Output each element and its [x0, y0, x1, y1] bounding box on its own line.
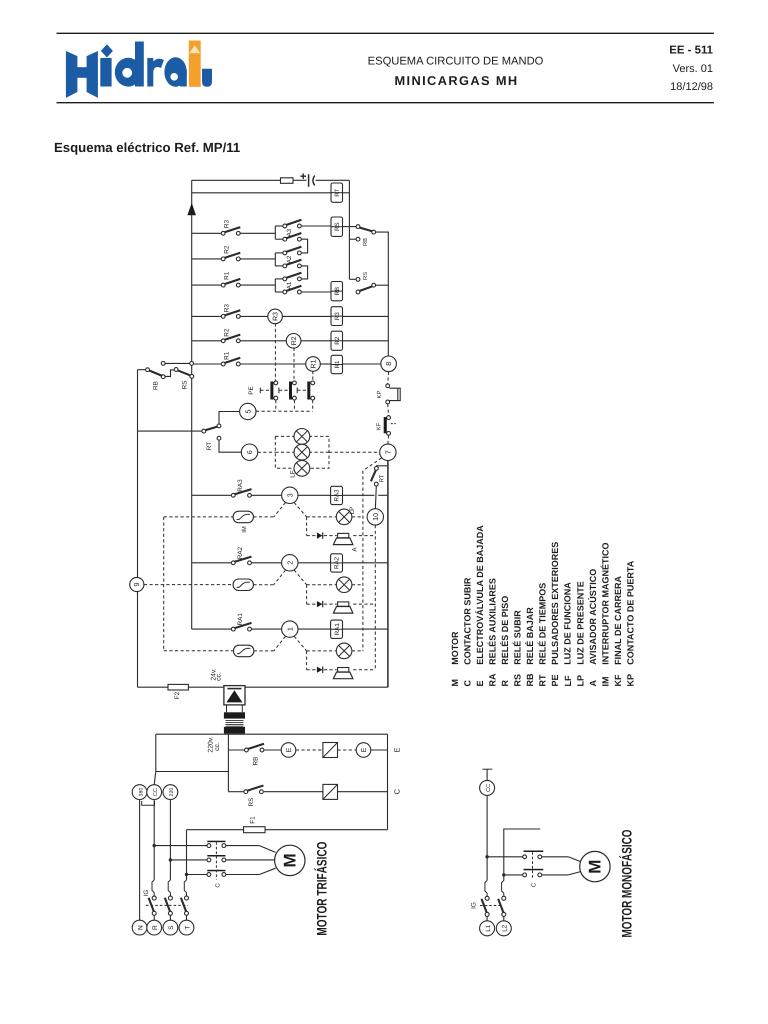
svg-text:RB: RB [153, 381, 160, 390]
wire motor row B [170, 859, 207, 861]
svg-text:L2: L2 [502, 924, 509, 931]
switch R2 lower [221, 339, 225, 343]
dashed bus from node 7 [362, 471, 364, 651]
changeover contact RB top right [356, 225, 360, 229]
wire CC drop [153, 800, 155, 881]
svg-text:A2: A2 [286, 255, 293, 263]
dashed drop row 2 [306, 585, 308, 604]
svg-text:RS: RS [513, 674, 523, 687]
wire floor row 2 [192, 562, 232, 564]
dashed wire IM3 to left [164, 516, 233, 518]
dashed bus from node 10 [374, 525, 376, 670]
svg-text:F2: F2 [174, 691, 181, 699]
wire A3 to RS coil [301, 225, 331, 227]
svg-text:3: 3 [285, 493, 294, 497]
wire A1 lower to RB coil [301, 291, 331, 293]
svg-text:RA2: RA2 [334, 556, 341, 569]
dashed wire buzzer row 2 [307, 603, 316, 605]
svg-text:RELÉ SUBIR: RELÉ SUBIR [513, 610, 523, 665]
limit switch KF [387, 416, 391, 420]
svg-text:C: C [214, 883, 221, 888]
pushbutton PE3 [307, 382, 310, 400]
node 7 [380, 444, 396, 460]
lamp LP floor 3 [336, 509, 352, 525]
svg-text:RA1: RA1 [334, 623, 341, 636]
Hidral logo [66, 41, 212, 98]
node 2 [282, 555, 298, 571]
coil box R1 [331, 355, 343, 373]
rectifier box [224, 686, 245, 705]
svg-text:CC: CC [153, 788, 159, 796]
supply top wire with fuse and battery [192, 179, 281, 181]
svg-text:Vers. 01: Vers. 01 [673, 63, 713, 75]
dashed to connector [296, 749, 323, 751]
relay R3 [268, 309, 283, 324]
svg-text:ELECTROVÁLVULA DE BAJADA: ELECTROVÁLVULA DE BAJADA [475, 525, 485, 665]
svg-text:FINAL DE CARRERA: FINAL DE CARRERA [613, 575, 623, 664]
switch RA2 [231, 561, 235, 565]
polarity arrow on bus [187, 203, 196, 216]
dashed to coil E2 [338, 749, 357, 751]
wire motor row C [187, 874, 208, 876]
svg-text:cc.: cc. [214, 742, 221, 751]
svg-text:KF: KF [613, 674, 623, 686]
coil box RA2 [331, 554, 343, 572]
terminal S [163, 920, 178, 935]
svg-text:RB: RB [253, 757, 260, 766]
wire R3 contact row [192, 232, 222, 234]
svg-text:R3: R3 [223, 304, 230, 313]
wire mono row 1 [487, 856, 523, 858]
svg-text:CONTACTOR SUBIR: CONTACTOR SUBIR [462, 577, 472, 665]
wire N [139, 800, 141, 921]
svg-text:RT: RT [206, 442, 213, 450]
svg-text:RS: RS [334, 222, 341, 231]
svg-text:RB: RB [525, 673, 535, 686]
svg-text:R1: R1 [334, 360, 341, 368]
relay coil RS [343, 226, 357, 228]
fuse F2 [168, 684, 188, 690]
switch RT right [375, 467, 379, 471]
pushbutton PE2 [289, 382, 292, 400]
svg-text:S: S [168, 925, 175, 930]
wire CC mono drop [486, 795, 488, 880]
wire RS contact to bus [376, 284, 389, 286]
svg-text:EE - 511: EE - 511 [669, 45, 713, 57]
svg-text:M: M [586, 860, 605, 874]
svg-text:A: A [352, 547, 359, 552]
header bottom rule [57, 102, 714, 104]
svg-text:220: 220 [169, 788, 175, 797]
svg-text:RT: RT [379, 474, 386, 482]
magnetic switch IM floor 2 [233, 579, 253, 591]
wire floor row 1 [192, 628, 232, 630]
dashed wire buzzer row 3 [307, 535, 316, 537]
node 9 [130, 577, 144, 591]
battery plus label [300, 175, 306, 177]
contactor C mono actuator [532, 852, 534, 880]
coil box R3 [331, 307, 343, 326]
svg-text:F1: F1 [249, 816, 256, 824]
dashed wire KF to node 7 [387, 435, 390, 444]
motor M trifasico [275, 845, 305, 875]
svg-text:RELÉS AUXILIARES: RELÉS AUXILIARES [487, 578, 497, 665]
svg-text:RS: RS [248, 798, 255, 807]
svg-text:RA3: RA3 [334, 489, 341, 502]
contactor C mono poles [523, 855, 527, 859]
wire 220v left drop [155, 734, 157, 771]
lamp LF2 [294, 444, 310, 460]
svg-text:RS: RS [181, 381, 188, 390]
svg-text:LUZ DE PRESENTE: LUZ DE PRESENTE [575, 581, 585, 665]
svg-text:R2: R2 [223, 328, 230, 337]
svg-text:R1: R1 [223, 271, 230, 280]
svg-text:R3: R3 [223, 219, 230, 228]
wire coil row E [228, 749, 244, 751]
svg-text:RA1: RA1 [237, 613, 244, 626]
coil box R2 [331, 331, 343, 350]
switch RS 220 [244, 790, 248, 794]
svg-text:LUZ DE FUNCIONA: LUZ DE FUNCIONA [563, 582, 573, 665]
svg-text:R3: R3 [334, 312, 341, 320]
dashed V from node 2 [274, 570, 286, 585]
svg-text:R: R [500, 680, 510, 687]
wire fuse F1 row [187, 829, 244, 831]
svg-text:PULSADORES EXTERIORES: PULSADORES EXTERIORES [550, 542, 560, 665]
svg-text:E: E [393, 747, 402, 752]
dashed wire pushbutton common [256, 410, 313, 412]
wire F1 drop [186, 830, 188, 880]
wire 220 drop [169, 800, 171, 881]
terminal 220 [163, 785, 178, 800]
svg-text:LP: LP [575, 675, 585, 687]
connector box 1 [323, 743, 338, 758]
svg-text:RB: RB [363, 238, 369, 246]
wire A3 lower to A2 upper [301, 239, 307, 253]
terminal CC mono [480, 780, 495, 795]
wire 220v right drop [387, 734, 389, 830]
dashed left riser [163, 517, 165, 651]
svg-text:L1: L1 [485, 924, 492, 931]
dashed wire lamp row 1 [254, 650, 274, 652]
diode floor 2 [317, 601, 323, 607]
dashed branch from node 7 [363, 458, 382, 471]
terminal 380 [132, 785, 147, 800]
node 6 [241, 444, 257, 460]
dashed wire buzzer row 1 [307, 669, 316, 671]
wire coil row C [228, 791, 244, 793]
terminal CC [147, 785, 162, 800]
dashed wire lampbox to node 7 [329, 451, 380, 453]
svg-text:18/12/98: 18/12/98 [670, 81, 713, 93]
svg-text:KP: KP [376, 391, 383, 399]
svg-text:MOTOR: MOTOR [450, 631, 460, 665]
svg-text:E: E [475, 680, 485, 686]
dashed drop row 1 [306, 651, 308, 670]
dashed wire lamp row 3 [253, 516, 273, 518]
wire R2 contact row [192, 258, 222, 260]
legend [450, 525, 636, 687]
coil box RA3 [331, 486, 343, 504]
svg-text:R: R [152, 925, 159, 930]
svg-text:ESQUEMA CIRCUITO DE MANDO: ESQUEMA CIRCUITO DE MANDO [368, 56, 544, 68]
svg-text:LF: LF [563, 675, 573, 686]
terminal N [132, 920, 147, 935]
lamp LP floor 2 [336, 577, 352, 593]
strap 380-CC [142, 801, 155, 805]
svg-text:KF: KF [376, 422, 383, 430]
terminal R [147, 920, 162, 935]
svg-text:E: E [286, 747, 293, 752]
svg-text:1: 1 [285, 627, 294, 631]
svg-text:R1: R1 [223, 351, 230, 360]
svg-text:A3: A3 [286, 228, 293, 236]
svg-text:PE: PE [248, 386, 255, 395]
dashed drop row 3 [306, 517, 308, 536]
stub to RT timer contact [376, 465, 388, 468]
wire CC mono stub [483, 768, 493, 770]
svg-text:RA2: RA2 [237, 546, 244, 559]
svg-text:Esquema eléctrico Ref. MP/11: Esquema eléctrico Ref. MP/11 [54, 140, 240, 155]
wire relay row R2 [192, 340, 222, 342]
svg-text:T: T [184, 926, 191, 930]
terminal T [179, 920, 194, 935]
switch RA3 [231, 493, 235, 497]
wire A2 lower to A1 upper [301, 266, 307, 279]
motor M monofasico [580, 851, 610, 881]
relay coil RB [331, 290, 343, 292]
wire R1 contact row [192, 284, 222, 286]
contact group A2 [274, 253, 276, 266]
relay R1 [306, 357, 321, 372]
svg-text:AVISADOR ACÚSTICO: AVISADOR ACÚSTICO [588, 569, 598, 665]
svg-text:MOTOR TRIFÁSICO: MOTOR TRIFÁSICO [314, 841, 330, 935]
relay R2 [286, 334, 301, 349]
svg-text:8: 8 [384, 362, 393, 366]
wire 220v mid drop [227, 734, 229, 792]
terminal L2 [496, 921, 511, 936]
dashed wire KP to KF [387, 404, 390, 416]
wire mono pole drops [503, 875, 505, 881]
svg-text:C: C [393, 788, 402, 794]
svg-text:CC: CC [486, 784, 492, 792]
wire motor row A [154, 845, 207, 847]
lamp group rails [275, 436, 329, 468]
terminal L1 [480, 921, 495, 936]
svg-text:10: 10 [371, 513, 380, 521]
door contact KP [386, 384, 390, 388]
battery plates [308, 174, 310, 187]
contactor C poles [207, 844, 211, 848]
coil box RA1 [331, 620, 343, 638]
wire to node 5 [219, 412, 240, 425]
dashed risers R relays to buttons [274, 323, 276, 381]
dashed V from node 3 [274, 503, 286, 517]
dashed wire node8 to KP [387, 372, 390, 384]
header top rule [57, 32, 714, 34]
svg-text:IG: IG [471, 902, 478, 909]
wire RT common [138, 430, 202, 432]
svg-text:RT: RT [538, 674, 548, 686]
bottom 24v wire [138, 686, 169, 688]
svg-text:C: C [462, 680, 472, 687]
magnetic switch IM floor 1 [234, 645, 254, 657]
fuse F1 [244, 827, 266, 833]
changeover switch RT left [202, 429, 206, 433]
svg-text:LF: LF [290, 470, 297, 478]
svg-text:RELÉ BAJAR: RELÉ BAJAR [525, 607, 535, 665]
switch RA1 [231, 627, 235, 631]
svg-text:RELÉS DE PISO: RELÉS DE PISO [500, 596, 510, 665]
svg-text:A: A [588, 680, 598, 687]
wire node 6 [219, 440, 241, 452]
switch R2 [221, 257, 225, 261]
contactor C actuator [215, 842, 217, 879]
changeover contact RS right [356, 290, 360, 294]
svg-text:IM: IM [600, 677, 610, 687]
dashed V from node 1 [274, 636, 286, 651]
svg-text:INTERRUPTOR MAGNÉTICO: INTERRUPTOR MAGNÉTICO [600, 542, 610, 664]
svg-text:7: 7 [384, 450, 393, 454]
lamp LP floor 1 [336, 643, 352, 659]
switch RB left [138, 369, 146, 371]
svg-text:R2: R2 [223, 245, 230, 254]
node 1 [282, 621, 298, 637]
svg-text:IG: IG [143, 890, 150, 897]
svg-text:PE: PE [550, 674, 560, 686]
wire mono row 2 [504, 874, 523, 876]
node 3 [282, 487, 298, 503]
wire RT to node 10 [374, 486, 377, 509]
svg-text:KP: KP [626, 674, 636, 687]
svg-text:380: 380 [138, 788, 144, 797]
svg-text:M: M [281, 853, 300, 867]
left bus wire [191, 180, 193, 629]
diode floor 1 [317, 667, 323, 673]
svg-text:C: C [530, 882, 537, 887]
svg-text:E: E [361, 747, 368, 752]
contact group A1 [274, 279, 276, 292]
connector box 2 [323, 784, 338, 799]
switch RB 220 [245, 748, 249, 752]
wire RB contact to bus 8 [376, 232, 389, 356]
dashed wire node6 to lamp box [258, 451, 276, 453]
node 10 [367, 509, 383, 525]
svg-text:R2: R2 [334, 336, 341, 344]
wire RT row [192, 192, 331, 194]
outer left bus [137, 370, 139, 578]
svg-text:RA3: RA3 [237, 479, 244, 492]
svg-text:RELÉ DE TIEMPOS: RELÉ DE TIEMPOS [538, 583, 548, 665]
wire R1 row left stub [161, 362, 165, 366]
node 8 [381, 356, 397, 372]
right feed wire [348, 180, 350, 279]
buzzer A floor 3 [338, 533, 349, 537]
wire mono stub top [504, 829, 540, 875]
svg-text:A1: A1 [286, 281, 293, 289]
dashed wire lamp row 2 [253, 584, 273, 586]
svg-text:R2: R2 [291, 336, 298, 345]
switch R1 [221, 283, 225, 287]
svg-text:R1: R1 [311, 359, 318, 368]
svg-text:IM: IM [241, 526, 248, 533]
pushbutton PE1 [270, 382, 273, 400]
valve coil E2 [356, 743, 371, 758]
svg-text:9: 9 [132, 583, 141, 587]
lamp LF1 [294, 429, 310, 445]
svg-text:R3: R3 [273, 312, 280, 321]
wire floor row 3 [192, 494, 232, 496]
lamp LF3 [294, 460, 310, 476]
dashed wire node 9 to IM2 [144, 584, 233, 586]
wire RB to RS left [165, 370, 174, 377]
svg-text:RS: RS [362, 272, 369, 280]
transformer [226, 705, 228, 712]
svg-text:LP: LP [349, 507, 356, 515]
svg-text:5: 5 [243, 410, 252, 414]
valve coil E1 [281, 743, 296, 758]
diode floor 3 [317, 533, 323, 539]
switch R3 [221, 231, 225, 235]
buzzer A floor 2 [338, 602, 349, 606]
svg-text:MOTOR MONOFÁSICO: MOTOR MONOFÁSICO [619, 829, 635, 937]
svg-text:MINICARGAS MH: MINICARGAS MH [394, 73, 518, 88]
wire 220v top [156, 733, 388, 735]
svg-text:6: 6 [245, 450, 254, 454]
svg-text:N: N [137, 925, 144, 930]
relay coil RT [331, 183, 343, 202]
wire relay row R3 [192, 315, 222, 317]
contact group A3 [274, 226, 276, 239]
dashed wire to IM1 [164, 650, 234, 652]
fuse top [281, 178, 294, 184]
svg-text:CONTACTO DE PUERTA: CONTACTO DE PUERTA [626, 560, 636, 665]
svg-text:RB: RB [334, 287, 341, 296]
right bus from node 7 [387, 461, 389, 688]
wire relay row R1 [192, 363, 222, 365]
svg-text:2: 2 [285, 561, 294, 565]
switch RS left [174, 368, 178, 372]
svg-text:M: M [450, 679, 460, 687]
svg-text:cc.: cc. [216, 672, 223, 681]
svg-text:RT: RT [334, 188, 341, 196]
magnetic switch IM floor 3 [233, 511, 253, 523]
svg-text:RA: RA [487, 673, 497, 686]
switch R1 lower [221, 362, 225, 366]
switch R3 lower [221, 315, 225, 319]
node 5 [240, 403, 256, 419]
wire branch [156, 771, 229, 773]
buzzer A floor 1 [338, 668, 349, 672]
